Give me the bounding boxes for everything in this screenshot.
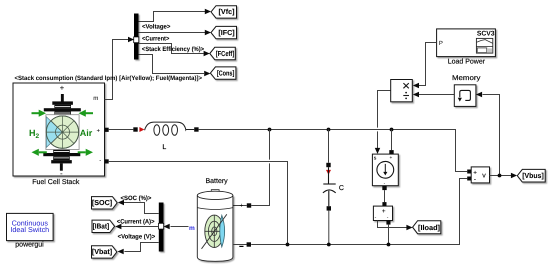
- wire bottom bus battery minus to v measurement minus: [233, 179, 467, 245]
- svg-text:<Current (A)>: <Current (A)>: [117, 219, 155, 226]
- svg-text:L: L: [162, 144, 166, 151]
- fuel cell emblem circle: [46, 116, 78, 148]
- junction node load branch bottom: [387, 243, 391, 247]
- svg-text:m: m: [93, 95, 98, 102]
- junction node capacitor bottom: [327, 243, 331, 247]
- inductor right port square: [194, 127, 198, 131]
- capacitor bottom port square: [327, 206, 331, 210]
- wire current measurement signal to Iload: [378, 221, 407, 228]
- wire current measurement to bottom bus: [388, 225, 390, 245]
- arrow into bus selector 2: [164, 224, 170, 229]
- goto tag SOC: [92, 197, 118, 209]
- divide block: [391, 80, 413, 102]
- bus selector 1 bar: [134, 14, 139, 60]
- svg-text:Memory: Memory: [452, 75, 481, 82]
- wire top DC bus to v measurement plus: [199, 130, 468, 172]
- junction node capacitor branch: [327, 128, 331, 132]
- goto tag Vfc: [211, 6, 237, 18]
- fuel cell green arrow top-left (inward): [32, 110, 47, 117]
- wire fuel cell minus return: [109, 162, 288, 245]
- svg-text:[Vbus]: [Vbus]: [522, 171, 544, 180]
- bus selector 1 input port box: [134, 37, 139, 43]
- load power block SCV3: [437, 29, 496, 57]
- goto tag IBat: [92, 220, 115, 232]
- svg-text:-: -: [474, 176, 476, 183]
- fuel cell stack U_FC block body: [13, 83, 105, 176]
- arrow into Vfc: [205, 9, 211, 14]
- arrow into Vbus: [511, 173, 517, 178]
- svg-text:<Current>: <Current>: [142, 35, 170, 42]
- svg-text:-: -: [99, 158, 101, 164]
- current source plus port square: [389, 150, 393, 154]
- capacitor top port square: [326, 163, 330, 167]
- wire memory to divide divisor input: [419, 94, 454, 96]
- svg-text:[SOC]: [SOC]: [92, 198, 112, 207]
- svg-text:[Iload]: [Iload]: [418, 223, 440, 232]
- fuel cell bottom electrode: [43, 150, 80, 171]
- svg-text:Fuel Cell Stack: Fuel Cell Stack: [32, 178, 80, 186]
- wire divide output to current source s input: [378, 91, 391, 149]
- v measurement plus port square: [467, 170, 471, 174]
- controlled current source block: [372, 154, 398, 186]
- svg-text:[IFC]: [IFC]: [218, 28, 234, 37]
- junction node current source branch: [390, 128, 394, 132]
- wire current source to current measurement: [384, 190, 386, 202]
- svg-text:+: +: [60, 83, 65, 92]
- fuel cell minus port square: [105, 159, 109, 163]
- wire fuel cell m to bus selector 1: [105, 40, 130, 100]
- wire bus2 out1 SOC: [124, 203, 159, 214]
- fuel cell green arrow top-right (inward): [79, 110, 94, 117]
- svg-text:<Stack consumption (Standard l: <Stack consumption (Standard lpm) [Air(Y…: [15, 75, 203, 82]
- junction node battery plus branch: [268, 128, 272, 132]
- fuel cell membrane square: [46, 115, 79, 150]
- svg-text:C: C: [339, 185, 344, 192]
- arrow into Vbat: [118, 249, 124, 254]
- arrow into memory: [476, 92, 482, 97]
- svg-text:+: +: [97, 128, 101, 134]
- wire fuel cell plus to inductor: [109, 129, 134, 131]
- svg-text:Load Power: Load Power: [448, 58, 486, 66]
- svg-text:SCV3: SCV3: [477, 30, 495, 37]
- fuel cell green arrow bottom-left (outward): [32, 149, 47, 156]
- arrow into IBat: [115, 224, 121, 229]
- current measurement minus port square: [386, 221, 390, 225]
- arrow into bus selector 1: [128, 37, 134, 42]
- battery minus port marker: [239, 246, 243, 247]
- svg-text:Air: Air: [80, 128, 93, 138]
- arrow into FCeff: [204, 51, 210, 56]
- arrow into IFC: [205, 30, 211, 35]
- svg-text:P: P: [439, 40, 443, 47]
- svg-text:[Vbat]: [Vbat]: [92, 247, 112, 256]
- svg-text:powergui: powergui: [15, 240, 44, 248]
- svg-text:Ideal Switch: Ideal Switch: [10, 225, 49, 234]
- wire bus1 out1 Voltage to Vfc: [139, 12, 206, 22]
- wire capacitor top branch: [328, 130, 330, 163]
- battery plus port square: [247, 203, 251, 207]
- inductor L coil: [145, 122, 195, 135]
- svg-text:<Stack Efficiency (%)>: <Stack Efficiency (%)>: [142, 46, 205, 53]
- capacitor C symbol: [323, 167, 336, 206]
- battery cylinder: [197, 190, 233, 262]
- svg-text:[IBat]: [IBat]: [93, 222, 110, 231]
- svg-text:+: +: [239, 203, 243, 210]
- goto tag Iload: [413, 221, 441, 234]
- svg-text:+: +: [382, 208, 386, 215]
- goto tag FCeff: [210, 47, 236, 59]
- wire vbus junction to memory input: [483, 95, 500, 176]
- memory block: [454, 85, 476, 107]
- goto tag Vbat: [92, 246, 117, 258]
- wire bus1 out3 StackEff to FCeff: [139, 44, 204, 54]
- voltage measurement block: [471, 167, 489, 183]
- svg-text:<SOC (%)>: <SOC (%)>: [121, 195, 152, 202]
- svg-text:<Voltage (V)>: <Voltage (V)>: [118, 234, 156, 241]
- arrow into divide x: [413, 83, 419, 88]
- current source bottom port square: [382, 186, 386, 190]
- svg-text:Battery: Battery: [206, 178, 229, 185]
- goto tag Vbus: [517, 169, 545, 182]
- arrow into divide divisor: [413, 92, 419, 97]
- wire bus2 out3 Voltage to Vbat: [124, 243, 158, 252]
- goto tag IFC: [211, 26, 237, 38]
- current measurement top port square: [382, 202, 386, 206]
- svg-text:[Cons]: [Cons]: [217, 69, 235, 78]
- svg-text:s: s: [374, 156, 377, 162]
- wire v measurement output to Vbus: [490, 175, 512, 177]
- wire current source plus branch: [391, 130, 393, 151]
- fuel cell plus port square: [105, 128, 109, 132]
- wire bus1 out2 Current to IFC: [139, 32, 206, 34]
- svg-text:-: -: [60, 169, 63, 178]
- junction node fuel cell return: [286, 243, 290, 247]
- bus selector 2 bar: [159, 203, 164, 252]
- fuel cell green arrow bottom-right (outward): [78, 149, 93, 156]
- bus selector 2 input port box: [159, 223, 164, 229]
- current measurement block: [373, 206, 392, 221]
- arrow into Iload: [406, 225, 412, 230]
- wire load power P to divide x input: [419, 43, 437, 86]
- wire bus1 out4 consumption to Cons: [139, 55, 205, 74]
- svg-text:m: m: [189, 225, 195, 232]
- battery emblem: [202, 214, 227, 249]
- inductor left port square: [133, 127, 137, 131]
- svg-text:[Vfc]: [Vfc]: [219, 7, 235, 16]
- svg-text:[FCeff]: [FCeff]: [216, 49, 235, 58]
- wire battery plus branch: [233, 130, 270, 206]
- goto tag Cons: [210, 67, 236, 79]
- arrow into Cons: [204, 71, 210, 76]
- junction node vbus feedback: [498, 174, 502, 178]
- svg-text:<Voltage>: <Voltage>: [142, 24, 171, 31]
- svg-text:v: v: [482, 173, 486, 180]
- arrow into SOC: [118, 200, 124, 205]
- fuel cell top electrode: [44, 94, 81, 116]
- wire bus2 out2 Current to IBat: [121, 226, 159, 228]
- wire battery m to bus selector 2: [171, 226, 189, 228]
- red signal direction arrow on capacitor: [326, 170, 331, 175]
- wire capacitor bottom branch: [328, 211, 330, 245]
- powergui block: [7, 213, 54, 240]
- red signal direction arrow on inductor wire: [139, 127, 144, 132]
- v measurement minus port square: [467, 177, 471, 181]
- battery minus port square: [247, 242, 251, 246]
- svg-text:+: +: [390, 156, 393, 161]
- arrow into current source s: [375, 148, 380, 154]
